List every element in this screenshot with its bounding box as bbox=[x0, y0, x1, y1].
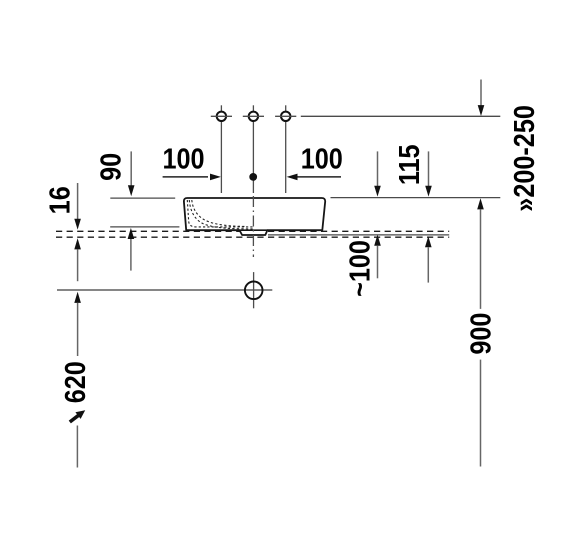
faucet hole circle 2 bbox=[249, 112, 258, 121]
dim 900 lower tail bbox=[480, 360, 482, 467]
basin rim line extension right bbox=[331, 197, 501, 199]
basin bottom line across boss bbox=[240, 229, 268, 231]
dim 90 lower arrow bbox=[128, 228, 135, 239]
dim 90 upper arrow bbox=[130, 151, 132, 186]
svg-text:90: 90 bbox=[94, 153, 127, 181]
hole crosshair h1 bbox=[211, 115, 232, 117]
hole crosshair h3 bbox=[275, 115, 296, 117]
dim 620 lower tail bbox=[76, 426, 78, 468]
adjustable NE arrow glyph bbox=[70, 415, 80, 422]
dim 100 right line bbox=[287, 174, 298, 181]
center hole dot bbox=[249, 173, 257, 181]
counter surface extension left bbox=[110, 226, 179, 228]
svg-text:»200-250: »200-250 bbox=[507, 105, 540, 212]
drain circle vertical crosshair bbox=[253, 272, 255, 308]
solid mid line right of basin bbox=[268, 234, 449, 236]
dim ~100 right arrow bbox=[425, 236, 432, 247]
basin rim line extension left bbox=[110, 197, 175, 199]
svg-text:100: 100 bbox=[301, 142, 343, 175]
long bottom reference line bbox=[57, 289, 272, 291]
dim 620 arrow bbox=[74, 292, 81, 303]
inner bowl dotted curve A bbox=[189, 200, 253, 229]
drain hole circle bbox=[245, 282, 263, 300]
basin vertical centerline dash-dot bbox=[252, 196, 254, 257]
svg-text:620: 620 bbox=[59, 361, 92, 403]
dim 900 top arrow bbox=[477, 198, 484, 209]
dim 115 right arrow bbox=[428, 151, 430, 186]
dim 100 left line bbox=[163, 176, 208, 178]
inner bowl dotted wall bbox=[187, 200, 253, 227]
dim 16 lower arrow bbox=[74, 238, 81, 249]
inner bowl dotted curve B bbox=[192, 200, 245, 226]
dashed countertop line lower bbox=[56, 236, 449, 238]
hole crosshair h2 bbox=[243, 115, 264, 117]
dim 16 upper arrow bbox=[77, 183, 79, 219]
svg-text:100: 100 bbox=[162, 142, 204, 175]
dim 200-250 top arrow bbox=[480, 80, 482, 106]
svg-text:900: 900 bbox=[464, 313, 497, 355]
hole centerline 3 bbox=[285, 105, 287, 193]
dim 115 left arrow bbox=[377, 151, 379, 186]
dashed countertop line upper bbox=[56, 230, 449, 232]
basin outline bbox=[184, 198, 325, 235]
hole centerline 1 bbox=[220, 105, 222, 193]
faucet hole circle 3 bbox=[281, 112, 290, 121]
faucet hole circle 1 bbox=[217, 112, 226, 121]
dim ~100 left arrow bbox=[374, 235, 381, 246]
hole centerline 2 top bbox=[252, 105, 254, 193]
svg-text:~100: ~100 bbox=[343, 240, 376, 297]
svg-text:115: 115 bbox=[392, 144, 425, 185]
faucet holes line extension right bbox=[301, 115, 501, 117]
svg-text:16: 16 bbox=[43, 186, 76, 214]
